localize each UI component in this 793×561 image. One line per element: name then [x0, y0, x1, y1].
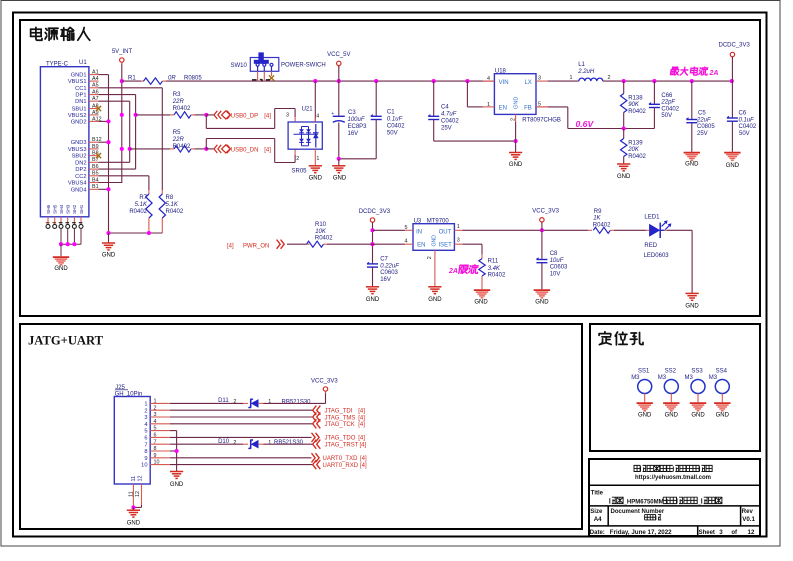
svg-text:22uF: 22uF [696, 117, 711, 123]
svg-text:SW10: SW10 [231, 63, 248, 69]
svg-text:D10: D10 [218, 439, 230, 445]
wire SH pins to ground [59, 228, 81, 246]
svg-text:SS2: SS2 [665, 368, 677, 374]
ground (C5) [684, 153, 700, 168]
svg-text:12: 12 [135, 491, 141, 497]
resistor R10 10K [306, 222, 373, 247]
port USB0_DN [214, 145, 271, 154]
svg-text:[4]: [4] [360, 456, 367, 462]
wire pins 5/8 to ground [170, 431, 179, 462]
capacitor C4 4.7uF [428, 81, 460, 141]
svg-text:C0402: C0402 [387, 124, 405, 130]
svg-text:RB521S30: RB521S30 [282, 399, 312, 405]
svg-text:JTAG_TDI: JTAG_TDI [325, 409, 353, 415]
svg-text:L1: L1 [578, 62, 585, 68]
svg-text:0.1uF: 0.1uF [387, 117, 403, 123]
svg-text:R139: R139 [628, 140, 643, 146]
svg-text:C0402: C0402 [739, 124, 757, 130]
inductor L1 2.2uH [570, 62, 611, 81]
company name 东莞野火电子技术有限公司 [634, 465, 712, 471]
svg-text:GND: GND [716, 413, 730, 419]
ground (SS1) [637, 403, 653, 418]
svg-text:GND: GND [691, 413, 705, 419]
svg-text:50V: 50V [387, 131, 398, 137]
svg-text:EN: EN [499, 106, 507, 112]
wire C4 to U18 GND [434, 139, 518, 143]
svg-text:M3: M3 [685, 375, 694, 381]
resistor R138 90K [621, 81, 647, 128]
svg-text:VBUS2: VBUS2 [68, 113, 87, 119]
svg-text:R0402: R0402 [129, 209, 147, 215]
port UART0_RXD [313, 460, 367, 469]
svg-text:3: 3 [457, 238, 460, 244]
svg-text:12: 12 [138, 476, 144, 482]
svg-text:R9: R9 [594, 209, 602, 215]
port JTAG_TCK [313, 419, 366, 428]
svg-text:5.1K: 5.1K [135, 202, 148, 208]
wire pin6 to JTAG_TDO [170, 436, 312, 438]
svg-text:U1: U1 [79, 60, 87, 66]
svg-text:3.4K: 3.4K [488, 266, 501, 272]
svg-text:of: of [731, 530, 738, 536]
svg-text:C0402: C0402 [441, 119, 459, 125]
svg-text:[4]: [4] [358, 415, 365, 421]
svg-text:DN1: DN1 [75, 99, 86, 105]
svg-text:RB521S30: RB521S30 [274, 440, 304, 446]
svg-text:GND1: GND1 [71, 73, 87, 79]
svg-text:USB0_DN: USB0_DN [231, 148, 259, 154]
svg-text:M3: M3 [709, 375, 718, 381]
switch SW10 POWER-SWICH [231, 52, 326, 81]
svg-text:C5: C5 [698, 111, 706, 117]
svg-text:12: 12 [748, 529, 755, 536]
ground (C7) [366, 287, 380, 303]
svg-text:GND: GND [102, 253, 116, 259]
svg-text:10: 10 [141, 463, 147, 469]
svg-text:LED0603: LED0603 [644, 253, 670, 259]
svg-text:Size: Size [590, 509, 603, 515]
svg-text:GH_10Pin: GH_10Pin [115, 392, 143, 398]
resistor R3 22R [170, 92, 195, 118]
svg-text:11: 11 [131, 476, 137, 482]
svg-text:DP2: DP2 [75, 167, 86, 173]
resistor R11 3.4K [479, 255, 506, 290]
svg-text:SBU1: SBU1 [72, 107, 87, 113]
svg-text:LED1: LED1 [644, 215, 660, 221]
svg-text:2: 2 [144, 408, 147, 414]
svg-text:1K: 1K [593, 216, 601, 222]
port JTAG_TMS [313, 412, 366, 421]
wire PWR_ON to R10 [287, 243, 306, 245]
wire DCDC_3V3 to U3 IN / C7 branch [370, 222, 404, 262]
svg-text:[4]: [4] [358, 409, 365, 415]
svg-text:Friday, June 17, 2022: Friday, June 17, 2022 [610, 529, 672, 536]
svg-text:R138: R138 [628, 95, 643, 101]
svg-text:2A: 2A [709, 70, 719, 77]
svg-text:VCC_5V: VCC_5V [327, 52, 350, 58]
ground (R11) [474, 290, 490, 305]
svg-text:Rev: Rev [742, 509, 754, 515]
svg-text:GND: GND [54, 266, 68, 272]
svg-text:4: 4 [316, 114, 319, 120]
svg-text:1: 1 [457, 224, 460, 230]
svg-text:SBU2: SBU2 [72, 154, 87, 160]
svg-text:CC2: CC2 [75, 174, 86, 180]
port JTAG_TRST [313, 440, 367, 449]
svg-text:100uF: 100uF [348, 117, 365, 123]
svg-text:GND: GND [474, 299, 488, 305]
svg-text:C66: C66 [661, 93, 673, 99]
svg-text:VBUS1: VBUS1 [68, 79, 87, 85]
svg-text:R10: R10 [315, 222, 327, 228]
svg-text:22R: 22R [172, 137, 185, 143]
svg-text:[4]: [4] [227, 243, 234, 249]
svg-text:SS3: SS3 [691, 368, 703, 374]
svg-text:0.1uF: 0.1uF [739, 117, 755, 123]
svg-text:VCC_3V3: VCC_3V3 [532, 208, 559, 214]
svg-text:GND: GND [617, 174, 631, 180]
svg-text:16V: 16V [380, 277, 391, 283]
ground (U21 pin1) [309, 149, 323, 181]
svg-text:10K: 10K [315, 229, 327, 235]
capacitor C66 22pF [648, 81, 679, 128]
current limiter U3 MT9700 [405, 219, 463, 287]
svg-text:2: 2 [608, 75, 611, 81]
port JTAG_TDO [312, 433, 366, 442]
wire pin4 to JTAG_TCK [170, 423, 313, 425]
svg-text:[4]: [4] [358, 422, 365, 428]
svg-text:1: 1 [268, 399, 271, 405]
svg-text:SH5: SH5 [53, 204, 59, 214]
svg-text:GND: GND [665, 413, 679, 419]
section title 电源输入 [31, 27, 90, 40]
svg-text:M3: M3 [658, 375, 667, 381]
wire pin9 to UART0_TXD [170, 457, 312, 459]
wire CC1 to R8 [99, 88, 163, 190]
resistor R9 1K [588, 209, 614, 233]
svg-text:GND: GND [428, 297, 442, 303]
wire DN bus [99, 101, 132, 162]
section box: mounting holes 定位孔 [590, 324, 760, 451]
resistor R7 5.1K [129, 190, 152, 233]
svg-text:25V: 25V [697, 131, 708, 137]
port PWR_ON [227, 240, 284, 250]
svg-text:50V: 50V [739, 131, 750, 137]
wire CC2 to R7 [99, 176, 149, 190]
svg-text:2: 2 [296, 156, 299, 162]
svg-text:U21: U21 [302, 106, 314, 112]
svg-text:R0402: R0402 [628, 109, 646, 115]
svg-text:5V_INT: 5V_INT [112, 49, 133, 55]
wire EN to VIN rail [467, 81, 482, 107]
ground (R139) [617, 164, 631, 180]
svg-text:4: 4 [405, 239, 408, 245]
svg-text:R0402: R0402 [315, 236, 333, 242]
svg-text:R0402: R0402 [173, 144, 191, 150]
svg-text:4: 4 [144, 422, 147, 428]
svg-text:Sheet: Sheet [699, 530, 715, 536]
svg-text:20K: 20K [627, 147, 640, 153]
svg-text:Date:: Date: [590, 530, 605, 536]
svg-text:SS1: SS1 [638, 368, 650, 374]
capacitor C7 0.22uF [367, 257, 400, 287]
svg-text:C8: C8 [550, 251, 558, 257]
svg-text:10uF: 10uF [550, 258, 564, 264]
resistor R8 5.1K [159, 190, 184, 233]
svg-text:R1: R1 [128, 75, 136, 81]
svg-text:ISET: ISET [438, 243, 452, 249]
capacitor C8 10uF [536, 230, 568, 289]
svg-text:GND: GND [535, 299, 549, 305]
power port VCC_3V3 (U3 out) [532, 208, 559, 230]
section box: JATG+UART [20, 324, 582, 529]
svg-text:GND: GND [638, 413, 652, 419]
mounting hole SS1 M3 [631, 368, 652, 402]
svg-text:7: 7 [144, 442, 147, 448]
svg-text:IN: IN [416, 229, 422, 235]
port JTAG_TDI [313, 406, 366, 415]
wire pin7 to D10 [170, 443, 243, 445]
svg-text:1: 1 [144, 402, 147, 408]
LED LED1 RED LED0603 [644, 215, 672, 259]
title label [591, 490, 604, 496]
power port VCC_5V [327, 52, 350, 81]
wire VBUS bus / 5V_INT riser [99, 62, 124, 183]
junction J25 pins 11/12 [131, 505, 135, 509]
svg-text:JATG+UART: JATG+UART [28, 334, 104, 348]
svg-text:SH1: SH1 [79, 204, 85, 214]
svg-text:R8: R8 [166, 195, 174, 201]
svg-text:10V: 10V [550, 271, 561, 277]
wire DCDC_3V3 rail [603, 79, 734, 83]
svg-text:0.22uF: 0.22uF [380, 263, 399, 269]
svg-text:9: 9 [144, 456, 147, 462]
svg-text:[4]: [4] [360, 443, 367, 449]
svg-text:3: 3 [286, 113, 289, 119]
section title 定位孔 [599, 332, 643, 345]
ground (C3) [332, 159, 347, 182]
svg-text:C0603: C0603 [380, 270, 398, 276]
wire D10 to JTAG_TRST [264, 443, 313, 445]
connector J25 GH_10Pin [114, 385, 170, 508]
diode D10 RB521S30 [218, 439, 304, 449]
mounting hole SS2 M3 [658, 368, 679, 402]
svg-text:Document Number: Document Number [611, 509, 665, 515]
no-connect X on SBU2 [96, 153, 101, 158]
svg-text:POWER-SWICH: POWER-SWICH [281, 62, 326, 68]
svg-text:GND: GND [309, 176, 323, 182]
svg-text:GND: GND [170, 482, 184, 488]
svg-text:SR05: SR05 [292, 169, 308, 175]
svg-text:U3: U3 [414, 219, 422, 225]
ground (C6) [724, 153, 740, 169]
svg-text:SH6: SH6 [46, 204, 52, 214]
regulator U18 RT8097CHGB [483, 69, 561, 142]
wire D11 to VCC_3V3 [264, 391, 326, 403]
wire 5V_INT rail to R1 [122, 80, 141, 82]
svg-text:SS4: SS4 [716, 368, 728, 374]
svg-text:25V: 25V [441, 126, 452, 132]
svg-text:C0603: C0603 [550, 265, 568, 271]
diode D11 RB521S30 [218, 398, 311, 408]
svg-text:DCDC_3V3: DCDC_3V3 [359, 209, 391, 215]
svg-text:2: 2 [233, 399, 236, 405]
wire pin10 to UART0_RXD [170, 464, 313, 466]
svg-text:OUT: OUT [439, 229, 452, 235]
svg-text:DP1: DP1 [75, 93, 86, 99]
no-connect X on SBU1 [96, 106, 101, 111]
svg-text:C0805: C0805 [697, 124, 715, 130]
wire DP to U21 pin3 [206, 109, 295, 129]
svg-text:GND: GND [127, 521, 141, 527]
svg-text:LX: LX [524, 80, 531, 86]
svg-text:DN2: DN2 [75, 160, 86, 166]
section box: power input [20, 20, 760, 316]
note 0.6V [576, 119, 595, 129]
svg-text:GND: GND [685, 162, 699, 168]
wire DP bus [99, 95, 138, 170]
capacitor C1 0.1uF [370, 81, 405, 159]
svg-text:50V: 50V [661, 113, 672, 119]
note 2A限流 [448, 265, 479, 275]
svg-text:3: 3 [719, 529, 723, 536]
svg-text:22R: 22R [172, 99, 185, 105]
ground (SS3) [690, 403, 706, 418]
svg-text:[4]: [4] [264, 148, 271, 154]
svg-text:R0402: R0402 [593, 222, 611, 228]
svg-text:GND3: GND3 [71, 140, 87, 146]
power port 5V_INT [112, 49, 133, 64]
ground (C8) [534, 290, 550, 305]
svg-text:USB0_DP: USB0_DP [231, 114, 258, 120]
wire EN line to U3 [373, 243, 405, 245]
svg-text:[4]: [4] [358, 436, 365, 442]
svg-text:GND: GND [366, 297, 380, 303]
svg-text:RED: RED [644, 243, 657, 249]
svg-text:GND: GND [432, 235, 438, 247]
svg-text:GND: GND [726, 163, 740, 169]
svg-text:GND: GND [685, 304, 699, 310]
svg-text:R0402: R0402 [173, 106, 191, 112]
svg-text:2: 2 [233, 440, 236, 446]
svg-text:C4: C4 [441, 105, 449, 111]
svg-text:C7: C7 [380, 257, 388, 263]
svg-text:TYPE-C: TYPE-C [46, 62, 69, 68]
svg-text:C3: C3 [348, 110, 356, 116]
svg-text:6: 6 [144, 436, 147, 442]
wire C3/C1 ground rail [337, 157, 376, 161]
ground (U18) [509, 141, 523, 168]
ground (SS4) [714, 403, 730, 418]
mounting hole SS4 M3 [709, 368, 730, 402]
svg-text:MT9700: MT9700 [427, 219, 450, 225]
svg-text:CC1: CC1 [75, 86, 86, 92]
svg-text:2: 2 [427, 256, 433, 259]
wire bottom GND rail [106, 231, 162, 235]
port UART0_TXD [312, 453, 368, 462]
svg-text:5.1K: 5.1K [166, 202, 179, 208]
net stub marks under SW10 [252, 79, 270, 82]
wire USB0_DP line [136, 113, 214, 117]
svg-text:2A: 2A [448, 268, 458, 275]
ground (J25 pins 5/8) [170, 462, 184, 488]
date row [590, 529, 755, 536]
svg-text:U18: U18 [495, 69, 507, 75]
svg-text:R5: R5 [173, 130, 181, 136]
wire pin1 to D11/VCC [170, 402, 243, 404]
svg-text:A4: A4 [594, 516, 602, 523]
svg-text:4.7uF: 4.7uF [441, 112, 457, 118]
resistor R1 0R R0805 [128, 75, 202, 84]
power port DCDC_3V3 (input to U3) [359, 209, 391, 224]
mounting hole SS3 M3 [685, 368, 706, 402]
svg-text:1: 1 [268, 440, 271, 446]
ground (U1 shield) [53, 244, 69, 272]
svg-text:GND: GND [509, 162, 523, 168]
svg-text:EC8P3: EC8P3 [348, 124, 368, 130]
svg-text:VBUS4: VBUS4 [68, 181, 87, 187]
no-connect X on SW10 pin [269, 75, 274, 80]
svg-text:5: 5 [144, 429, 147, 435]
svg-text:[4]: [4] [360, 463, 367, 469]
svg-text:3: 3 [144, 415, 147, 421]
wire pin3 to JTAG_TMS [170, 416, 313, 418]
capacitor C3 100uF [331, 81, 367, 159]
svg-text:GND: GND [333, 176, 347, 182]
svg-text:R0402: R0402 [166, 209, 184, 215]
svg-text:R7: R7 [139, 195, 147, 201]
connector U1 TYPE-C [40, 60, 101, 228]
svg-text:Title: Title [591, 490, 604, 496]
title block frame [589, 459, 760, 536]
svg-text:https://yehuosm.tmall.com: https://yehuosm.tmall.com [635, 475, 711, 481]
svg-text:JTAG_TCK: JTAG_TCK [325, 422, 355, 428]
ground (LED1) [685, 293, 699, 309]
svg-text:JTAG_TRST: JTAG_TRST [325, 443, 359, 449]
capacitor C6 0.1uF [726, 81, 756, 152]
wire LED1 to ground [667, 230, 692, 293]
svg-text:SH4: SH4 [59, 204, 65, 214]
TVS array U21 SR05 [286, 81, 322, 175]
document number 主电源 [645, 515, 662, 520]
document number label [611, 509, 665, 515]
section title JATG+UART [28, 334, 104, 348]
size label [590, 509, 603, 523]
rev label [742, 509, 756, 523]
ground (U3 pin2) [428, 287, 442, 303]
svg-text:C6: C6 [739, 111, 747, 117]
svg-text:R3: R3 [173, 92, 181, 98]
wire VCC_5V rail [166, 79, 494, 83]
svg-text:2.2uH: 2.2uH [577, 69, 595, 75]
svg-text:D11: D11 [218, 398, 229, 404]
wire FB node [536, 107, 654, 131]
svg-text:GND: GND [513, 97, 519, 109]
svg-text:C1: C1 [387, 110, 395, 116]
svg-text:SH3: SH3 [66, 204, 72, 214]
svg-text:DCDC_3V3: DCDC_3V3 [719, 43, 751, 49]
svg-text:RT8097CHGB: RT8097CHGB [522, 117, 561, 123]
svg-text:JTAG_TDO: JTAG_TDO [325, 436, 356, 442]
svg-text:22pF: 22pF [660, 100, 675, 106]
wire R9 to LED1 [614, 229, 646, 231]
wire GND bus (U1 GND pins) [99, 75, 111, 233]
svg-text:GND4: GND4 [71, 187, 87, 193]
svg-text:R11: R11 [488, 259, 499, 265]
wire DN to U21 pin2 [206, 139, 295, 163]
svg-text:_HPM6750MM 1: _HPM6750MM 1 [623, 500, 670, 506]
wire USB0_DN line [130, 147, 214, 151]
